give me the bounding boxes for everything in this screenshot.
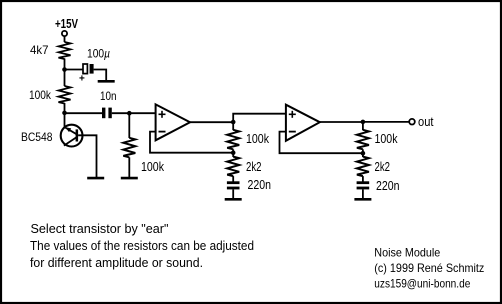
wire U2 output node down to 100k	[362, 122, 364, 130]
op-amp U2	[286, 105, 320, 141]
ground for U2 network	[354, 198, 371, 200]
svg-text:10n: 10n	[100, 89, 117, 103]
svg-text:Noise Module: Noise Module	[374, 245, 440, 259]
ground for U1 network	[225, 198, 242, 200]
op-amp U1	[156, 104, 190, 140]
wire U2 inverting feedback	[280, 132, 363, 154]
wire U1 inverting feedback	[150, 132, 233, 153]
resistor 2k2 U1	[227, 157, 239, 177]
wire node to out terminal	[363, 121, 409, 123]
resistor 100k feedback U2	[357, 130, 369, 150]
svg-text:+15V: +15V	[55, 17, 79, 31]
wire jog up to U2 + input	[233, 114, 286, 122]
capacitor 220n U1	[227, 181, 240, 189]
svg-text:220n: 220n	[376, 179, 400, 193]
ground for input 100k	[121, 177, 138, 179]
node U1 output	[231, 120, 236, 125]
wire 220n to ground U2	[362, 189, 364, 198]
node U2 output	[361, 120, 366, 125]
out terminal	[409, 119, 415, 125]
svg-text:100k: 100k	[246, 132, 270, 146]
svg-text:100µ: 100µ	[87, 47, 110, 61]
wire U2 output to node	[319, 121, 363, 123]
capacitor 100u (electrolytic)	[83, 64, 94, 74]
wire transistor base to ground	[78, 135, 96, 177]
svg-text:100k: 100k	[29, 88, 52, 102]
svg-text:2k2: 2k2	[246, 160, 262, 174]
wire 100u to ground	[94, 70, 107, 81]
capacitor 10n	[102, 108, 112, 119]
svg-text:uzs159@uni-bonn.de: uzs159@uni-bonn.de	[374, 276, 470, 290]
wire junction to 10n	[65, 112, 103, 114]
resistor 100k (upper bias)	[59, 86, 71, 103]
svg-text:+: +	[79, 74, 85, 85]
resistor 4k7	[59, 42, 71, 59]
node junction 10n/100k-gnd/op-amp	[127, 111, 132, 116]
wire 4k7 to 100k	[64, 59, 66, 87]
svg-text:220n: 220n	[248, 178, 272, 192]
ground for transistor base	[87, 177, 104, 179]
wire U1 output to node	[189, 121, 233, 123]
+15V supply terminal	[62, 31, 67, 36]
wire junction to capacitor 100u	[65, 69, 84, 71]
svg-text:(c) 1999 René Schmitz: (c) 1999 René Schmitz	[374, 261, 484, 275]
ground for 100u	[98, 80, 115, 82]
svg-text:The values of the resistors ca: The values of the resistors can be adjus…	[30, 238, 254, 253]
wire 2k2 to 220n	[232, 176, 234, 181]
node U1 feedback	[231, 150, 236, 155]
node U2 feedback	[361, 151, 366, 156]
node junction 4k7/100u/100k	[62, 67, 67, 72]
svg-text:for different amplitude or sou: for different amplitude or sound.	[30, 255, 203, 270]
wire 100k to fb node U2	[362, 149, 364, 157]
resistor 2k2 U2	[357, 157, 369, 177]
svg-text:4k7: 4k7	[30, 43, 49, 57]
node junction 100k/10n/transistor	[62, 111, 67, 116]
wire 100k to transistor	[64, 103, 66, 128]
wire 100k to fb node U1	[232, 149, 234, 157]
wire 100k to ground	[128, 157, 130, 177]
resistor 100k feedback U1	[227, 130, 239, 150]
svg-text:2k2: 2k2	[375, 160, 391, 174]
svg-text:Select transistor by "ear": Select transistor by "ear"	[31, 221, 169, 236]
transistor Q1 BC548	[61, 125, 83, 147]
resistor 100k to ground (input)	[123, 138, 135, 158]
svg-text:100k: 100k	[141, 160, 165, 174]
wire 220n to ground	[232, 189, 234, 198]
capacitor 220n U2	[357, 181, 370, 189]
wire node to 100k-gnd resistor	[128, 113, 130, 138]
wire terminal to R 4k7	[64, 36, 66, 42]
wire 10n to op-amp U1 + input	[112, 112, 156, 114]
svg-text:BC548: BC548	[21, 130, 53, 144]
wire U1 output node down to 100k	[232, 122, 234, 130]
svg-text:100k: 100k	[375, 132, 399, 146]
wire 2k2 to 220n U2	[362, 176, 364, 181]
svg-text:out: out	[418, 115, 434, 129]
